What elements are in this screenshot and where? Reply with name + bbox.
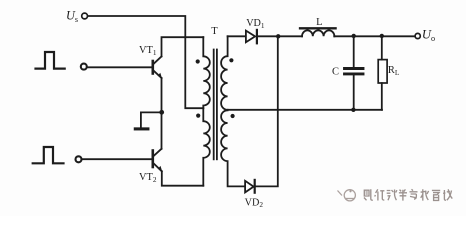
svg-text:Uo: Uo <box>422 28 435 43</box>
svg-text:VD2: VD2 <box>245 197 264 209</box>
svg-text:Us: Us <box>66 8 78 23</box>
svg-text:VD1: VD1 <box>246 18 265 30</box>
svg-text:VT1: VT1 <box>139 45 157 57</box>
svg-text:C: C <box>332 67 339 78</box>
svg-text:VT2: VT2 <box>139 172 157 184</box>
svg-text:RL: RL <box>388 65 400 77</box>
svg-text:T: T <box>211 26 218 37</box>
svg-text:L: L <box>316 17 322 28</box>
